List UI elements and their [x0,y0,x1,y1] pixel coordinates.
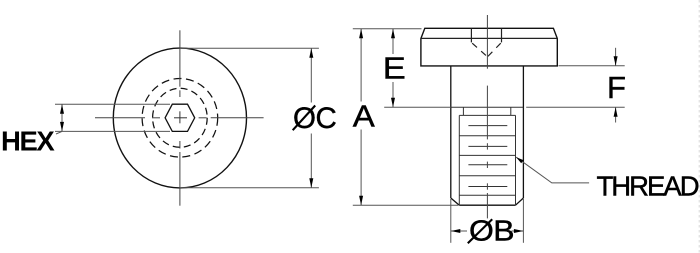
svg-text:THREAD: THREAD [597,170,699,201]
svg-text:F: F [607,70,626,105]
svg-text:HEX: HEX [1,125,55,156]
svg-text:E: E [383,51,406,86]
svg-text:A: A [353,99,375,134]
